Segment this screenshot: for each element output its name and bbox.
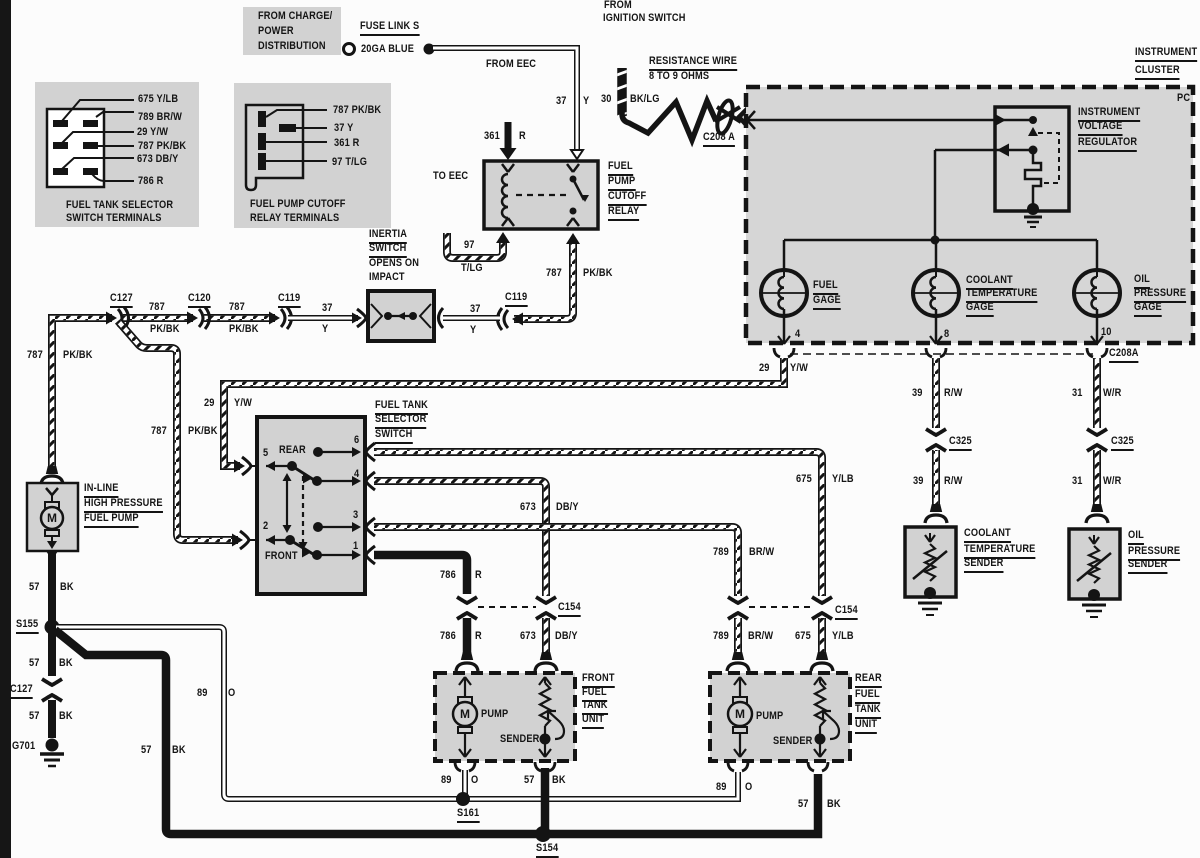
svg-text:M: M xyxy=(460,707,470,721)
svg-text:M: M xyxy=(47,511,57,525)
svg-text:M: M xyxy=(735,707,745,721)
